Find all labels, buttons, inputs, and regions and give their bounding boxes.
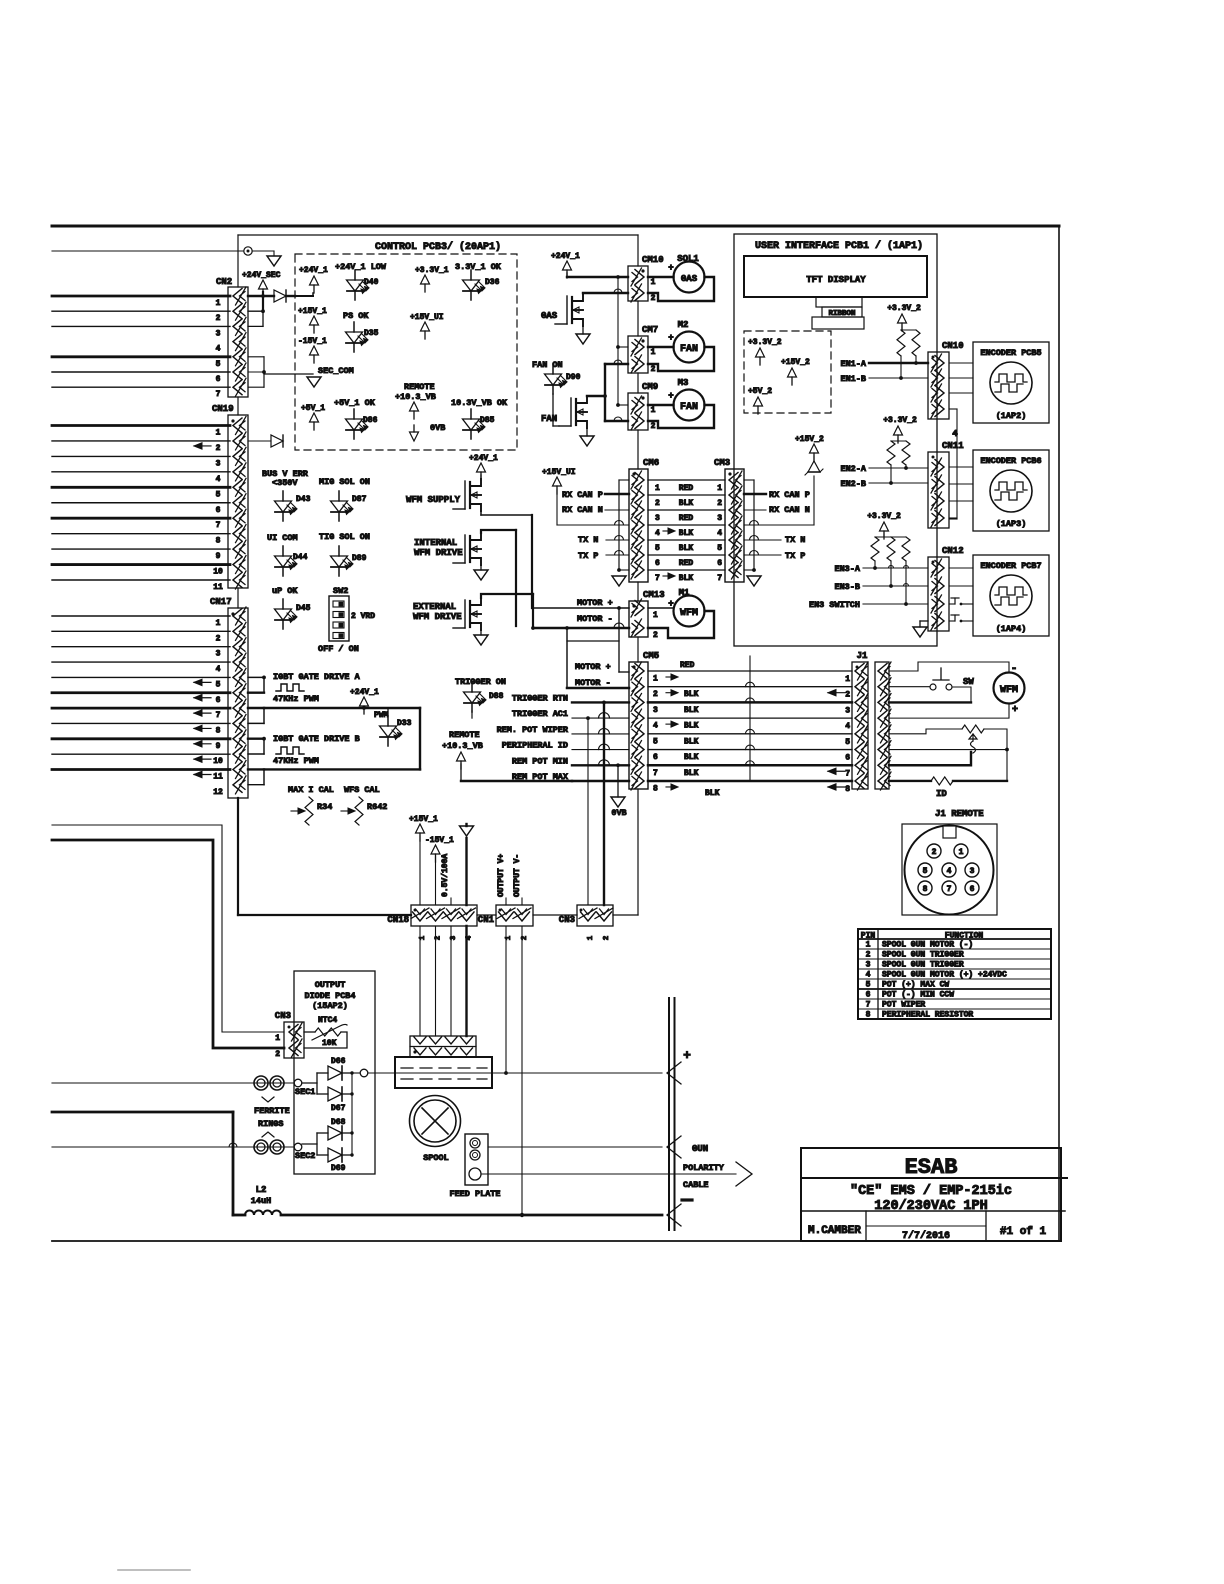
svg-text:+15V_UI: +15V_UI [410,313,444,322]
svg-text:D87: D87 [352,495,367,504]
svg-text:0VB: 0VB [611,808,626,818]
svg-text:2: 2 [845,691,850,700]
svg-text:6: 6 [216,375,221,384]
svg-text:FAN ON: FAN ON [532,360,563,370]
svg-text:D43: D43 [296,495,311,504]
svg-text:D66: D66 [331,1057,346,1066]
svg-text:7: 7 [216,390,221,399]
svg-text:REM. POT WIPER: REM. POT WIPER [497,725,569,735]
svg-text:6: 6 [866,991,871,1000]
svg-text:5: 5 [216,680,221,689]
svg-text:POT (+) MAX CW: POT (+) MAX CW [882,981,949,990]
svg-text:CM7: CM7 [642,325,658,335]
svg-text:INTERNAL: INTERNAL [414,538,457,548]
svg-text:POLARITY: POLARITY [683,1163,725,1173]
svg-text:FAN: FAN [541,414,557,424]
svg-text:47KHz PWM: 47KHz PWM [273,694,319,704]
svg-text:EN2-A: EN2-A [840,464,866,474]
svg-text:+24V_1 LOW: +24V_1 LOW [335,262,387,272]
svg-text:-15V_1: -15V_1 [298,337,327,346]
svg-text:7/7/2016: 7/7/2016 [902,1230,950,1242]
svg-text:RED: RED [679,484,694,493]
svg-text:M.CAMBER: M.CAMBER [808,1225,861,1237]
svg-text:+: + [668,263,673,273]
svg-text:4: 4 [216,345,221,354]
svg-text:4: 4 [655,529,660,538]
svg-text:3: 3 [970,867,975,876]
svg-text:IGBT GATE DRIVE A: IGBT GATE DRIVE A [273,672,361,682]
svg-text:FAN: FAN [680,402,698,413]
svg-text:FEED PLATE: FEED PLATE [449,1189,500,1199]
svg-text:7: 7 [717,574,722,583]
svg-text:PWM: PWM [374,711,389,720]
svg-text:EN3-A: EN3-A [834,564,860,574]
svg-text:+24V_SEC: +24V_SEC [242,271,281,280]
svg-text:2: 2 [651,422,656,431]
svg-text:D68: D68 [331,1118,346,1127]
svg-text:47KHz PWM: 47KHz PWM [273,756,319,766]
svg-text:(1AP3): (1AP3) [996,519,1027,529]
svg-text:MIG SOL ON: MIG SOL ON [319,477,370,487]
svg-text:D85: D85 [480,416,495,425]
svg-text:TRIGGER ON: TRIGGER ON [455,677,506,687]
svg-text:CN1: CN1 [478,915,495,925]
svg-text:3: 3 [216,650,221,659]
svg-text:MAX I CAL: MAX I CAL [288,785,334,795]
svg-text:10: 10 [213,568,223,577]
svg-text:WFM: WFM [680,608,698,619]
svg-text:ENCODER PCB6: ENCODER PCB6 [980,456,1041,466]
svg-text:CM6: CM6 [643,458,659,468]
svg-text:RED: RED [679,559,694,568]
svg-text:+15V_1: +15V_1 [409,815,438,824]
svg-text:2: 2 [653,631,658,640]
svg-text:CN17: CN17 [210,597,232,607]
svg-text:R642: R642 [367,802,387,812]
svg-text:(15AP2): (15AP2) [312,1001,348,1011]
svg-text:1: 1 [587,935,595,940]
svg-text:12: 12 [213,788,223,797]
svg-text:GAS: GAS [681,274,698,284]
svg-text:11: 11 [213,583,223,592]
svg-text:BLK: BLK [684,769,699,778]
svg-text:RX CAN N: RX CAN N [562,505,603,515]
svg-text:2: 2 [651,294,656,303]
svg-text:OUTPUT V+: OUTPUT V+ [497,854,506,897]
svg-text:FUNCTION: FUNCTION [945,932,984,941]
svg-text:RX CAN P: RX CAN P [769,490,810,500]
svg-text:CONTROL PCB3/ (20AP1): CONTROL PCB3/ (20AP1) [375,241,501,253]
svg-text:6: 6 [970,885,975,894]
svg-text:M3: M3 [678,378,689,388]
svg-text:EN1-B: EN1-B [840,374,866,384]
svg-text:CM3: CM3 [714,458,730,468]
svg-text:MOTOR -: MOTOR - [575,678,611,688]
svg-text:POT WIPER: POT WIPER [882,1001,925,1010]
svg-text:uP OK: uP OK [272,586,298,596]
svg-text:9: 9 [216,742,221,751]
svg-text:ESAB: ESAB [905,1155,958,1180]
svg-text:3: 3 [866,961,871,970]
svg-text:8: 8 [216,726,221,735]
svg-text:2: 2 [216,314,221,323]
svg-text:RINGS: RINGS [258,1119,284,1129]
svg-text:2: 2 [653,690,658,699]
svg-text:+3.3V_2: +3.3V_2 [748,338,782,347]
svg-text:+24V_1: +24V_1 [551,252,580,261]
svg-text:7: 7 [866,1001,871,1010]
svg-text:3: 3 [216,459,221,468]
svg-text:3: 3 [216,329,221,338]
svg-text:TX N: TX N [578,535,598,545]
svg-text:+5V_2: +5V_2 [748,387,772,396]
svg-text:CN11: CN11 [942,441,964,451]
svg-text:D67: D67 [331,1104,346,1113]
svg-text:WFS CAL: WFS CAL [344,785,380,795]
svg-text:CN2: CN2 [216,277,232,287]
svg-text:9: 9 [216,552,221,561]
svg-text:2: 2 [717,499,722,508]
svg-text:PS OK: PS OK [343,311,369,321]
svg-text:(1AP2): (1AP2) [996,411,1027,421]
svg-text:3: 3 [655,514,660,523]
svg-text:REMOTE: REMOTE [449,730,480,740]
svg-text:TRIGGER AC1: TRIGGER AC1 [512,709,568,719]
svg-text:14uH: 14uH [251,1196,271,1206]
svg-text:SPOOL GUN TRIGGER: SPOOL GUN TRIGGER [882,951,964,960]
svg-text:3: 3 [845,706,850,715]
svg-text:+15V_2: +15V_2 [795,435,824,444]
svg-text:BLK: BLK [679,544,694,553]
svg-text:SW2: SW2 [333,586,348,596]
svg-text:ENCODER PCB7: ENCODER PCB7 [980,561,1041,571]
svg-text:+3.3V_2: +3.3V_2 [867,512,901,521]
svg-text:BLK: BLK [684,737,699,746]
svg-text:1: 1 [655,484,660,493]
svg-text:8: 8 [845,785,850,794]
svg-text:J1 REMOTE: J1 REMOTE [935,809,984,819]
svg-text:TFT DISPLAY: TFT DISPLAY [806,275,866,285]
svg-text:7: 7 [655,574,660,583]
svg-text:SEC2: SEC2 [295,1151,315,1161]
svg-text:WFM: WFM [1000,685,1018,696]
svg-text:2: 2 [216,634,221,643]
svg-text:EN1-A: EN1-A [840,359,866,369]
svg-text:SW: SW [963,677,974,687]
svg-text:1: 1 [653,675,658,684]
svg-text:3: 3 [653,706,658,715]
svg-text:1: 1 [216,619,221,628]
svg-text:3: 3 [717,514,722,523]
svg-text:BLK: BLK [684,706,699,715]
svg-text:+: + [668,333,673,343]
svg-text:4: 4 [866,971,871,980]
svg-text:EN2-B: EN2-B [840,479,866,489]
svg-text:RX CAN N: RX CAN N [769,505,810,515]
svg-text:ID: ID [936,789,947,799]
svg-text:10: 10 [213,757,223,766]
svg-text:TX P: TX P [578,551,598,561]
svg-text:MOTOR +: MOTOR + [575,662,611,672]
svg-text:CN18: CN18 [387,915,409,925]
svg-text:EN3-B: EN3-B [834,582,860,592]
svg-text:SPOOL GUN TRIGGER: SPOOL GUN TRIGGER [882,961,964,970]
svg-text:NTC4: NTC4 [318,1016,337,1025]
svg-text:7: 7 [845,769,850,778]
svg-text:CN3: CN3 [275,1011,291,1021]
svg-text:+: + [683,1048,691,1063]
svg-text:RX CAN P: RX CAN P [562,490,603,500]
svg-text:+24V_1: +24V_1 [299,266,328,275]
svg-text:D33: D33 [397,719,412,728]
svg-text:CN19: CN19 [212,404,234,414]
svg-text:R34: R34 [317,802,332,812]
svg-text:10K: 10K [322,1039,337,1048]
svg-text:PIN: PIN [861,932,876,941]
svg-text:2: 2 [866,951,871,960]
svg-text:4: 4 [845,722,850,731]
svg-text:OFF / ON: OFF / ON [318,644,359,654]
svg-text:+3.3V_2: +3.3V_2 [883,416,917,425]
svg-text:4: 4 [947,867,952,876]
svg-text:SEC_COM: SEC_COM [318,366,354,376]
svg-text:6: 6 [216,696,221,705]
svg-text:7: 7 [216,711,221,720]
svg-text:"CE" EMS / EMP-215ic: "CE" EMS / EMP-215ic [850,1184,1012,1199]
svg-text:1: 1 [959,848,964,857]
svg-text:5: 5 [653,737,658,746]
svg-text:REM POT MIN: REM POT MIN [512,756,568,766]
svg-text:0.5V/100A: 0.5V/100A [441,854,450,897]
svg-text:2 VRD: 2 VRD [351,612,375,621]
svg-text:BLK: BLK [684,690,699,699]
svg-text:<350V: <350V [272,478,298,488]
svg-text:5: 5 [717,544,722,553]
svg-text:SEC1: SEC1 [295,1087,315,1097]
svg-text:10.3V_VB OK: 10.3V_VB OK [451,398,508,408]
svg-text:PERIPHERAL RESISTOR: PERIPHERAL RESISTOR [882,1011,973,1020]
svg-text:0VB: 0VB [430,423,445,433]
svg-text:+10.3_VB: +10.3_VB [442,741,483,751]
svg-text:D36: D36 [485,278,500,287]
svg-text:D45: D45 [296,604,311,613]
svg-text:+15V_UI: +15V_UI [542,468,576,477]
svg-text:8: 8 [923,885,928,894]
svg-text:POT (-) MIN CCW: POT (-) MIN CCW [882,991,954,1000]
svg-text:1: 1 [717,484,722,493]
svg-text:IGBT GATE DRIVE B: IGBT GATE DRIVE B [273,734,360,744]
svg-text:-15V_1: -15V_1 [425,836,454,845]
svg-text:D88: D88 [489,692,504,701]
svg-text:D40: D40 [364,278,379,287]
svg-text:4: 4 [952,429,958,439]
svg-text:8: 8 [216,537,221,546]
svg-text:+15V_2: +15V_2 [781,358,810,367]
svg-text:#1 of 1: #1 of 1 [1000,1226,1047,1238]
svg-text:D90: D90 [566,373,581,382]
svg-text:CM9: CM9 [642,382,658,392]
svg-text:(1AP4): (1AP4) [996,624,1027,634]
svg-text:1: 1 [216,299,221,308]
svg-text:J1: J1 [857,651,868,661]
svg-text:TX N: TX N [785,535,805,545]
svg-text:CM10: CM10 [642,255,664,265]
svg-text:5: 5 [655,544,660,553]
svg-text:PERIPHERAL ID: PERIPHERAL ID [502,741,568,751]
svg-text:TIG SOL ON: TIG SOL ON [319,532,370,542]
svg-text:4: 4 [717,529,722,538]
svg-text:FAN: FAN [680,344,698,355]
svg-text:CABLE: CABLE [683,1180,709,1190]
svg-text:D44: D44 [293,553,308,562]
svg-text:+24V_1: +24V_1 [469,454,498,463]
svg-text:+3.3V_1: +3.3V_1 [415,266,449,275]
svg-text:6: 6 [655,559,660,568]
svg-text:D69: D69 [331,1164,346,1173]
svg-text:L2: L2 [256,1185,267,1195]
svg-text:6: 6 [653,753,658,762]
svg-text:USER INTERFACE PCB1 / (1AP1): USER INTERFACE PCB1 / (1AP1) [755,240,923,252]
svg-text:+: + [668,391,673,401]
svg-text:11: 11 [213,773,223,782]
svg-text:RED: RED [679,514,694,523]
svg-text:D86: D86 [363,416,378,425]
svg-text:7: 7 [947,885,952,894]
svg-text:BLK: BLK [679,574,694,583]
svg-text:2: 2 [932,848,937,857]
svg-text:BLK: BLK [684,753,699,762]
svg-text:4: 4 [653,722,658,731]
svg-text:3.3V_1 OK: 3.3V_1 OK [455,262,502,272]
svg-text:8: 8 [653,784,658,793]
svg-text:+10.3_VB: +10.3_VB [395,392,436,402]
svg-text:5: 5 [216,490,221,499]
svg-text:EXTERNAL: EXTERNAL [413,602,456,612]
svg-text:EN3 SWITCH: EN3 SWITCH [809,600,860,610]
svg-text:+24V_1: +24V_1 [350,688,379,697]
svg-text:BLK: BLK [705,789,720,798]
svg-text:SPOOL GUN MOTOR (+) +24VDC: SPOOL GUN MOTOR (+) +24VDC [882,971,1007,980]
svg-text:5: 5 [845,738,850,747]
svg-text:5: 5 [866,981,871,990]
svg-text:2: 2 [603,935,611,940]
svg-text:WFM SUPPLY: WFM SUPPLY [406,495,461,505]
svg-text:1: 1 [651,348,656,357]
svg-text:MOTOR +: MOTOR + [577,598,613,608]
svg-text:5: 5 [216,360,221,369]
svg-text:4: 4 [216,665,221,674]
svg-text:7: 7 [216,521,221,530]
svg-text:7: 7 [653,769,658,778]
svg-text:RED: RED [680,661,695,670]
svg-text:GAS: GAS [541,311,558,321]
svg-text:TX P: TX P [785,551,805,561]
svg-text:CN12: CN12 [942,546,964,556]
svg-text:1: 1 [216,429,221,438]
svg-text:1: 1 [651,278,656,287]
svg-text:2: 2 [655,499,660,508]
svg-text:8: 8 [866,1011,871,1020]
svg-text:D89: D89 [352,554,367,563]
svg-text:1: 1 [866,941,871,950]
svg-text:1: 1 [653,611,658,620]
svg-text:D35: D35 [364,329,379,338]
svg-text:ENCODER PCB5: ENCODER PCB5 [980,348,1041,358]
svg-text:1: 1 [275,1034,280,1043]
svg-text:BLK: BLK [679,499,694,508]
svg-text:OUTPUT: OUTPUT [315,980,346,990]
svg-text:BLK: BLK [684,722,699,731]
svg-text:BLK: BLK [679,529,694,538]
svg-text:CN3: CN3 [559,915,575,925]
svg-text:+5V_1: +5V_1 [301,404,325,413]
svg-text:TRIGGER RTN: TRIGGER RTN [512,693,568,703]
svg-text:REMOTE: REMOTE [404,382,435,392]
svg-text:+3.3V_2: +3.3V_2 [887,304,921,313]
svg-text:OUTPUT V-: OUTPUT V- [513,854,522,897]
svg-text:6: 6 [717,559,722,568]
svg-text:6: 6 [845,754,850,763]
svg-text:FERRITE: FERRITE [254,1106,290,1116]
svg-text:M2: M2 [678,320,689,330]
svg-text:WFM DRIVE: WFM DRIVE [414,548,463,558]
svg-text:2: 2 [651,365,656,374]
svg-text:+5V_1 OK: +5V_1 OK [334,398,376,408]
svg-text:WFM DRIVE: WFM DRIVE [413,612,462,622]
svg-text:2: 2 [275,1050,280,1059]
svg-text:2: 2 [216,444,221,453]
svg-text:SPOOL: SPOOL [423,1153,449,1163]
svg-text:+15V_1: +15V_1 [298,307,327,316]
svg-text:DIODE PCB4: DIODE PCB4 [304,991,355,1001]
svg-text:+: + [1012,705,1018,716]
svg-text:5: 5 [923,867,928,876]
svg-text:UI COM: UI COM [267,533,298,543]
svg-text:CM5: CM5 [643,651,659,661]
svg-text:1: 1 [651,406,656,415]
svg-text:CN10: CN10 [942,341,964,351]
svg-text:CM13: CM13 [643,590,665,600]
svg-text:MOTOR -: MOTOR - [577,614,613,624]
svg-text:6: 6 [216,506,221,515]
svg-text:SPOOL GUN MOTOR (-): SPOOL GUN MOTOR (-) [882,941,973,950]
svg-text:GUN: GUN [692,1144,708,1154]
svg-text:1: 1 [845,675,850,684]
svg-text:4: 4 [216,475,221,484]
